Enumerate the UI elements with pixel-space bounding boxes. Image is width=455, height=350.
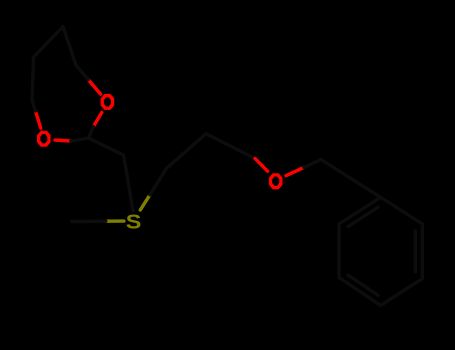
bond O1-C7 (ring) [88, 79, 101, 94]
svg-text:S: S [126, 210, 142, 233]
chain bond CH2-CH2 [166, 134, 206, 169]
oxygen O3 label (ring) [37, 131, 51, 147]
oxygen O1 label (ring) [101, 94, 115, 110]
bond C5-C4 (ring) [32, 57, 34, 100]
bond O-CH2 (benzyl side) [286, 167, 304, 175]
bond C7-C6 (ring) [63, 27, 76, 66]
phenyl inner double SW-S [348, 275, 378, 295]
phenyl edge NW-SW [337, 224, 340, 278]
bond O3-C2 (ring) [55, 138, 71, 142]
bond O3-C4 (ring) [35, 111, 40, 128]
phenyl inner double N-NW [348, 207, 378, 226]
phenyl edge NE-N [381, 197, 423, 224]
bond O-CH2 (chain side): gray part [206, 134, 255, 159]
phenyl inner double SE-NE [414, 231, 417, 272]
bond S-CH3 left [106, 219, 124, 222]
bond C2-CH2 (to S arm) [88, 138, 123, 155]
bond O1-C2 (ring) [93, 112, 102, 126]
phenyl edge S-SE [381, 279, 423, 306]
bond O-CH2 (chain side): red part at 45 deg into letter [255, 159, 268, 172]
bond CH2-phenyl ipso [321, 160, 381, 198]
bond C6-C5 (ring) [34, 27, 63, 58]
bond S-CH2 right [140, 195, 150, 210]
phenyl edge N-NW [339, 197, 381, 224]
phenyl edge SW-S [339, 278, 381, 306]
oxygen O label (benzyl ether) [269, 173, 283, 189]
bond CH2-S (gray line ending at S letter top) [124, 155, 133, 211]
phenyl edge SE-NE [421, 224, 424, 279]
